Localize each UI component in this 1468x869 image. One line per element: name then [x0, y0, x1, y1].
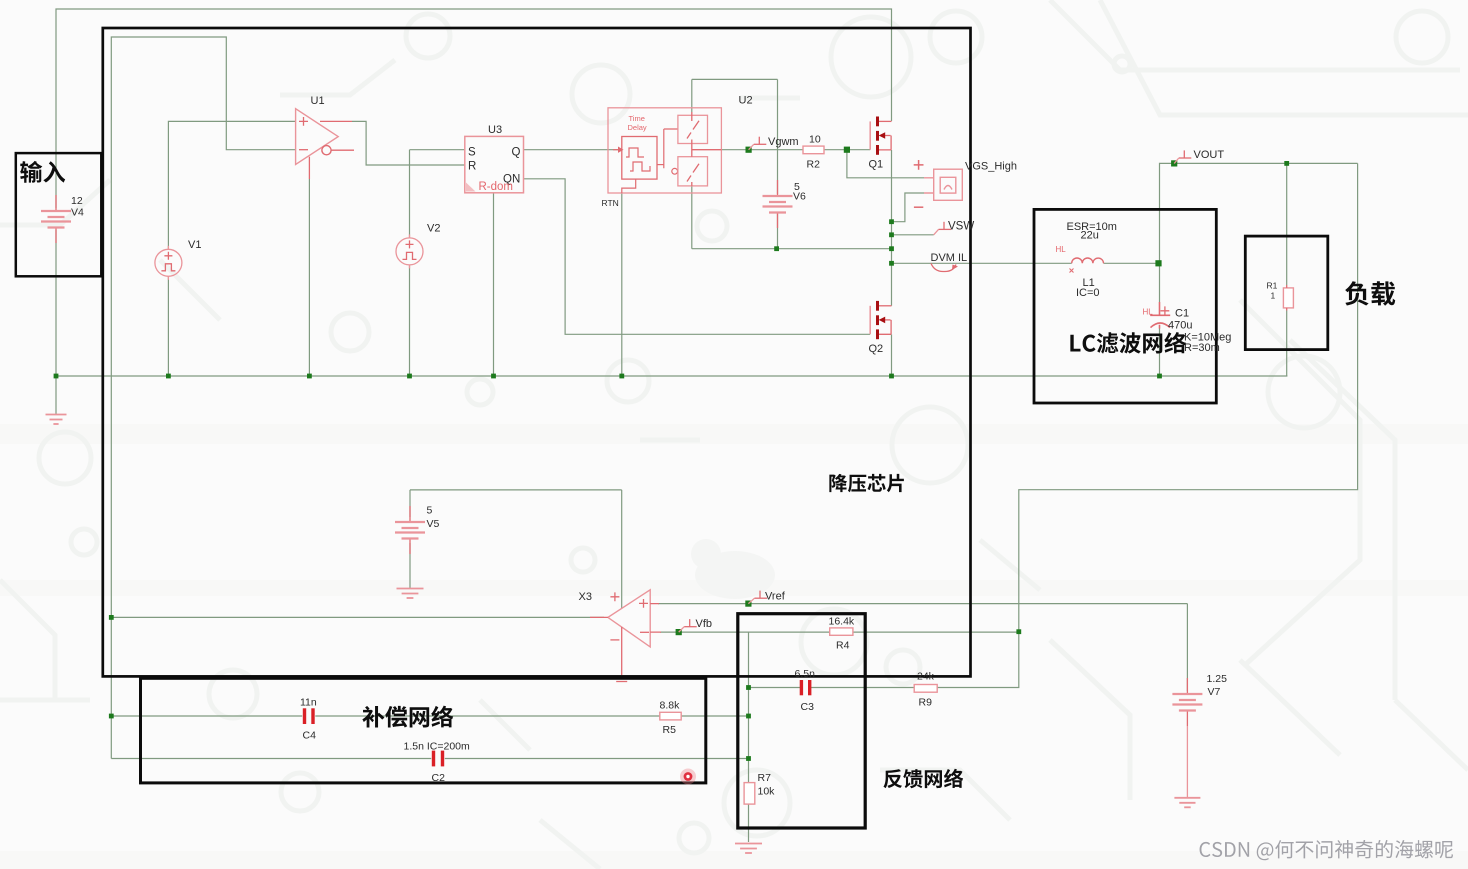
svg-text:22u: 22u — [1081, 230, 1099, 242]
svg-text:6.5n: 6.5n — [795, 668, 816, 680]
svg-text:RTN: RTN — [602, 198, 619, 208]
svg-text:HL: HL — [1056, 245, 1067, 254]
svg-text:1.25: 1.25 — [1207, 673, 1228, 685]
svg-text:10: 10 — [809, 134, 821, 146]
svg-text:VSW: VSW — [948, 221, 974, 233]
svg-text:24k: 24k — [917, 671, 935, 683]
svg-text:V5: V5 — [427, 518, 440, 530]
svg-text:S: S — [468, 147, 476, 159]
svg-text:Vfb: Vfb — [696, 618, 713, 630]
svg-text:8.8k: 8.8k — [660, 700, 681, 712]
svg-text:470u: 470u — [1168, 320, 1192, 332]
svg-text:Delay: Delay — [628, 123, 647, 132]
svg-text:Q2: Q2 — [869, 343, 884, 355]
svg-text:R=30m: R=30m — [1184, 342, 1220, 354]
svg-text:5: 5 — [427, 505, 433, 517]
svg-text:Q1: Q1 — [869, 159, 884, 171]
svg-text:U2: U2 — [739, 95, 753, 107]
svg-text:V4: V4 — [71, 207, 84, 219]
svg-text:1: 1 — [1271, 291, 1276, 301]
svg-text:U1: U1 — [311, 95, 325, 107]
svg-text:16.4k: 16.4k — [829, 616, 855, 628]
svg-text:R: R — [468, 161, 476, 173]
svg-text:R7: R7 — [758, 772, 772, 784]
svg-text:Q: Q — [512, 147, 521, 159]
svg-text:R4: R4 — [836, 640, 850, 652]
svg-text:HL: HL — [1143, 308, 1154, 317]
svg-text:11n: 11n — [300, 697, 317, 709]
svg-text:C4: C4 — [303, 730, 317, 742]
svg-text:V2: V2 — [427, 223, 440, 235]
svg-text:R9: R9 — [919, 697, 933, 709]
svg-text:R1: R1 — [1267, 281, 1278, 291]
svg-text:Time: Time — [629, 114, 645, 123]
svg-text:R-dom: R-dom — [479, 181, 514, 193]
svg-text:IC=0: IC=0 — [1076, 287, 1100, 299]
svg-text:VGS_High: VGS_High — [965, 161, 1017, 173]
svg-text:VOUT: VOUT — [1194, 149, 1225, 161]
svg-text:V1: V1 — [188, 239, 201, 251]
svg-text:10k: 10k — [758, 786, 776, 798]
svg-text:C3: C3 — [801, 701, 815, 713]
svg-text:R2: R2 — [807, 159, 821, 171]
svg-text:Vref: Vref — [765, 591, 786, 603]
svg-text:V7: V7 — [1208, 686, 1221, 698]
svg-text:Vgwm: Vgwm — [768, 136, 799, 148]
svg-text:X3: X3 — [579, 591, 592, 603]
svg-text:1.5n IC=200m: 1.5n IC=200m — [404, 741, 471, 753]
svg-text:V6: V6 — [793, 191, 806, 203]
svg-text:DVM IL: DVM IL — [931, 252, 968, 264]
svg-text:C1: C1 — [1175, 308, 1189, 320]
svg-text:U3: U3 — [488, 124, 502, 136]
svg-text:12: 12 — [71, 195, 83, 207]
svg-text:R5: R5 — [663, 724, 677, 736]
svg-text:C2: C2 — [432, 772, 446, 784]
